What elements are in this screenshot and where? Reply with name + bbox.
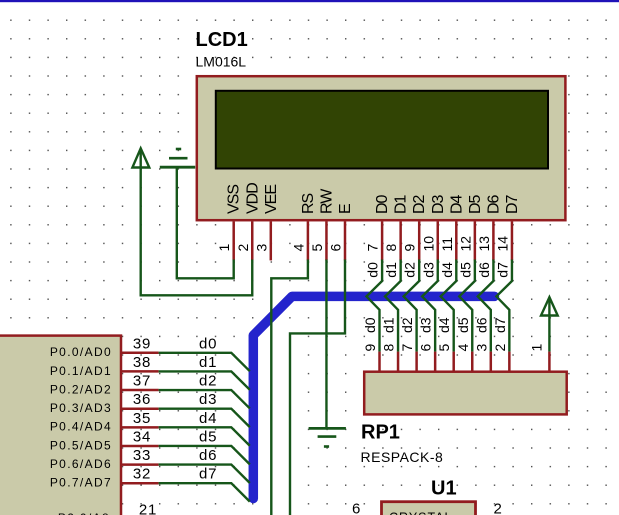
svg-text:E: E	[337, 204, 354, 214]
svg-text:4: 4	[455, 344, 471, 352]
svg-text:d4: d4	[199, 410, 217, 427]
svg-text:P0.5/AD5: P0.5/AD5	[50, 438, 112, 452]
svg-text:37: 37	[133, 373, 151, 390]
svg-text:14: 14	[494, 236, 510, 252]
svg-text:d1: d1	[199, 354, 217, 371]
svg-text:32: 32	[133, 466, 151, 483]
svg-text:d7: d7	[492, 317, 508, 333]
svg-text:D5: D5	[467, 194, 484, 214]
svg-text:d3: d3	[418, 317, 434, 333]
svg-text:d0: d0	[362, 317, 378, 333]
svg-text:d6: d6	[473, 317, 489, 333]
svg-text:D0: D0	[374, 194, 391, 214]
svg-text:d4: d4	[436, 317, 452, 333]
svg-text:4: 4	[290, 244, 306, 252]
svg-text:D6: D6	[485, 194, 502, 214]
svg-text:d3: d3	[420, 262, 436, 278]
svg-text:P2.0/A8: P2.0/A8	[58, 511, 110, 515]
svg-text:1: 1	[529, 344, 545, 352]
svg-text:3: 3	[473, 344, 489, 352]
svg-text:12: 12	[457, 236, 473, 252]
svg-text:d4: d4	[439, 262, 455, 278]
svg-text:d5: d5	[455, 317, 471, 333]
svg-text:d7: d7	[494, 262, 510, 278]
svg-text:9: 9	[402, 244, 418, 252]
svg-text:34: 34	[133, 428, 151, 445]
svg-text:RP1: RP1	[361, 422, 400, 444]
svg-text:D2: D2	[411, 194, 428, 214]
svg-text:33: 33	[133, 447, 151, 464]
svg-text:D3: D3	[430, 194, 447, 214]
svg-text:D4: D4	[448, 194, 465, 214]
svg-text:7: 7	[399, 344, 415, 352]
svg-text:9: 9	[362, 344, 378, 352]
svg-text:3: 3	[253, 244, 269, 252]
svg-text:LM016L: LM016L	[196, 54, 247, 70]
svg-text:P0.0/AD0: P0.0/AD0	[50, 345, 112, 359]
svg-text:CRYSTAL: CRYSTAL	[389, 511, 453, 515]
svg-text:RW: RW	[318, 188, 335, 214]
svg-text:21: 21	[139, 502, 157, 515]
svg-text:5: 5	[436, 344, 452, 352]
svg-text:7: 7	[365, 244, 381, 252]
svg-text:d5: d5	[457, 262, 473, 278]
svg-text:d3: d3	[199, 391, 217, 408]
svg-text:5: 5	[309, 244, 325, 252]
svg-text:P0.7/AD7: P0.7/AD7	[50, 476, 112, 490]
svg-text:D1: D1	[393, 194, 410, 214]
svg-text:RS: RS	[300, 193, 317, 214]
svg-text:D7: D7	[504, 194, 521, 214]
svg-text:1: 1	[216, 244, 232, 252]
svg-text:6: 6	[328, 244, 344, 252]
svg-text:2: 2	[492, 344, 508, 352]
svg-text:P0.4/AD4: P0.4/AD4	[50, 420, 112, 434]
svg-text:2: 2	[494, 501, 502, 515]
svg-text:VDD: VDD	[244, 183, 261, 214]
svg-text:d2: d2	[199, 373, 217, 390]
svg-text:U1: U1	[431, 478, 457, 500]
svg-text:d1: d1	[381, 317, 397, 333]
svg-text:d1: d1	[383, 262, 399, 278]
svg-text:11: 11	[439, 237, 455, 252]
svg-text:d2: d2	[402, 262, 418, 278]
svg-text:RESPACK-8: RESPACK-8	[361, 449, 444, 465]
svg-text:d6: d6	[476, 262, 492, 278]
svg-text:38: 38	[133, 354, 151, 371]
svg-text:LCD1: LCD1	[196, 29, 248, 51]
svg-text:d5: d5	[199, 428, 217, 445]
svg-text:39: 39	[133, 335, 151, 352]
svg-text:36: 36	[133, 391, 151, 408]
svg-text:d6: d6	[199, 447, 217, 464]
svg-text:VEE: VEE	[263, 185, 280, 214]
svg-text:10: 10	[420, 236, 436, 252]
svg-text:8: 8	[383, 244, 399, 252]
svg-text:P0.1/AD1: P0.1/AD1	[50, 364, 112, 378]
svg-text:6: 6	[418, 344, 434, 352]
svg-text:d0: d0	[365, 262, 381, 278]
svg-text:d7: d7	[199, 466, 217, 483]
svg-text:35: 35	[133, 410, 151, 427]
svg-text:d2: d2	[399, 317, 415, 333]
svg-text:8: 8	[381, 344, 397, 352]
svg-text:VSS: VSS	[226, 185, 243, 214]
svg-text:d0: d0	[199, 335, 217, 352]
svg-text:P0.2/AD2: P0.2/AD2	[50, 382, 112, 396]
svg-text:2: 2	[235, 244, 251, 252]
svg-text:P0.6/AD6: P0.6/AD6	[50, 457, 112, 471]
svg-text:6: 6	[352, 501, 360, 515]
svg-text:13: 13	[476, 236, 492, 252]
svg-text:P0.3/AD3: P0.3/AD3	[50, 401, 112, 415]
